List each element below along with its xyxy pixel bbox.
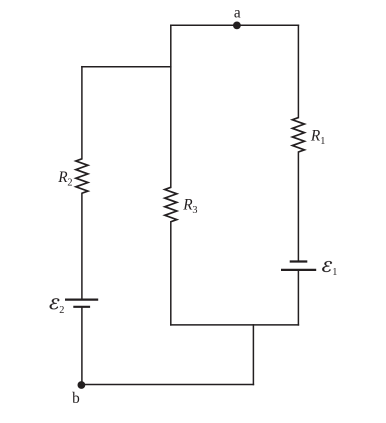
battery E2 short plate: [73, 306, 90, 308]
svg-text:3: 3: [192, 205, 197, 216]
wire bottom horizontal b-rail: [82, 384, 254, 386]
wire left branch upper (connector to R2): [81, 67, 83, 159]
wire middle branch upper (top rail to R3): [170, 25, 172, 187]
svg-text:b: b: [72, 390, 80, 407]
svg-text:1: 1: [320, 136, 325, 147]
wire right branch upper (top rail to R1): [297, 25, 299, 117]
svg-text:a: a: [234, 5, 241, 22]
battery E1 short plate: [290, 260, 308, 262]
wire left connector horizontal: [82, 66, 171, 68]
svg-text:1: 1: [332, 267, 337, 278]
label E2 script-E glyph: [50, 298, 60, 309]
svg-text:2: 2: [67, 177, 72, 188]
resistor R1: [292, 118, 304, 152]
svg-text:2: 2: [59, 305, 64, 316]
battery E1 long plate: [281, 269, 316, 271]
wire riser from b-rail to middle bottom rail: [252, 325, 254, 385]
battery E2 long plate: [65, 299, 98, 301]
wire top horizontal a-rail: [171, 24, 299, 26]
node a: [233, 22, 241, 30]
resistor R2: [76, 159, 88, 193]
label E1 script-E glyph: [322, 261, 332, 272]
wire middle branch lower (R3 to bottom rail): [170, 222, 172, 325]
wire right branch lower (E1 to bottom rail): [297, 270, 299, 325]
node b: [78, 381, 86, 389]
wire middle bottom rail: [171, 324, 299, 326]
svg-text:R: R: [310, 128, 321, 145]
wire left branch lower (E2 to node b): [81, 308, 83, 385]
wire right branch middle (R1 to battery E1): [297, 152, 299, 260]
resistor R3: [165, 187, 177, 221]
wire left branch middle (R2 to battery E2): [81, 193, 83, 298]
